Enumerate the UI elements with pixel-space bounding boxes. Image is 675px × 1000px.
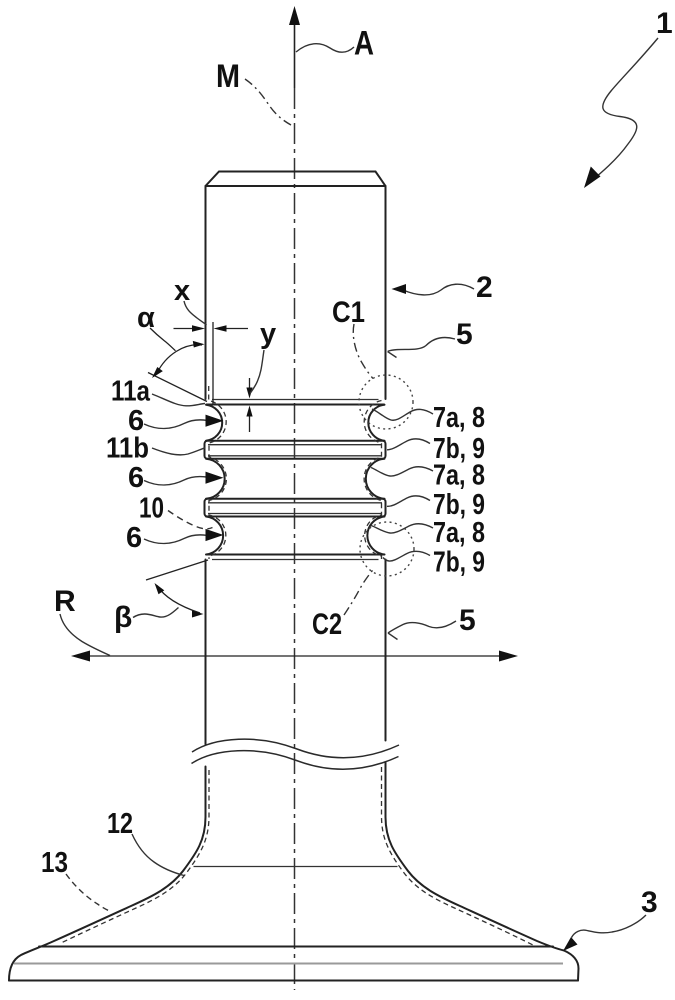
svg-text:6: 6 — [128, 462, 144, 494]
svg-text:β: β — [114, 601, 132, 634]
svg-text:A: A — [354, 25, 374, 63]
svg-text:1: 1 — [656, 7, 673, 40]
svg-text:α: α — [137, 302, 155, 334]
svg-text:R: R — [54, 585, 76, 618]
svg-text:y: y — [260, 318, 276, 350]
svg-text:5: 5 — [456, 318, 473, 351]
svg-text:C2: C2 — [312, 608, 342, 641]
svg-text:6: 6 — [126, 522, 142, 554]
svg-text:C1: C1 — [332, 296, 365, 329]
svg-text:11a: 11a — [111, 376, 151, 408]
svg-text:13: 13 — [41, 847, 68, 879]
svg-text:3: 3 — [641, 886, 658, 919]
svg-text:11b: 11b — [106, 433, 149, 465]
svg-text:12: 12 — [107, 808, 133, 840]
svg-text:2: 2 — [476, 271, 493, 304]
svg-text:5: 5 — [459, 604, 476, 637]
svg-text:x: x — [174, 275, 190, 307]
svg-text:10: 10 — [139, 493, 164, 525]
svg-text:M: M — [216, 58, 240, 94]
svg-text:7a, 8: 7a, 8 — [433, 460, 485, 492]
svg-text:7a, 8: 7a, 8 — [433, 517, 485, 549]
svg-text:7a, 8: 7a, 8 — [433, 402, 485, 434]
svg-text:7b, 9: 7b, 9 — [433, 547, 485, 579]
